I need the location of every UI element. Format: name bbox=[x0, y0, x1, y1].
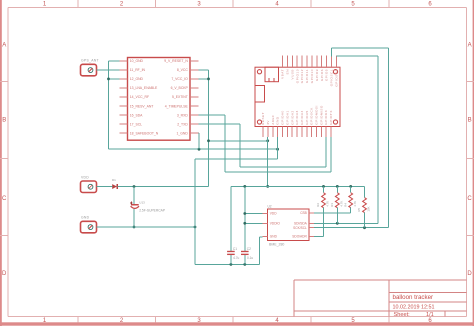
svg-text:4.7K: 4.7K bbox=[353, 201, 357, 207]
svg-text:GPIOA1: GPIOA1 bbox=[285, 110, 289, 125]
svg-text:VDD: VDD bbox=[81, 175, 89, 179]
svg-text:VDDIO: VDDIO bbox=[270, 222, 281, 226]
svg-text:GPIO9: GPIO9 bbox=[315, 69, 319, 81]
svg-text:GPIO10: GPIO10 bbox=[310, 69, 314, 83]
svg-text:SDI/SDA: SDI/SDA bbox=[294, 222, 308, 226]
svg-text:GPIORX: GPIORX bbox=[324, 110, 328, 125]
svg-text:GPIOA4: GPIOA4 bbox=[300, 110, 304, 125]
svg-text:GPIOMOSI: GPIOMOSI bbox=[315, 105, 319, 125]
svg-text:VBAT: VBAT bbox=[281, 69, 285, 79]
svg-text:U2: U2 bbox=[268, 204, 272, 208]
svg-text:GPIOSCL: GPIOSCL bbox=[330, 69, 334, 86]
svg-text:18_SAFEBOOT_N: 18_SAFEBOOT_N bbox=[130, 131, 159, 135]
svg-text:9_V_RESET_N: 9_V_RESET_N bbox=[164, 59, 188, 63]
svg-text:GPIO13: GPIO13 bbox=[295, 69, 299, 83]
svg-text:17_SCL: 17_SCL bbox=[130, 122, 142, 126]
svg-text:GND: GND bbox=[270, 235, 278, 239]
svg-text:GND: GND bbox=[81, 216, 90, 220]
svg-text:R2: R2 bbox=[316, 203, 320, 207]
svg-text:GPIOA2: GPIOA2 bbox=[290, 110, 294, 125]
svg-text:4.7u: 4.7u bbox=[233, 256, 239, 260]
svg-text:GPIOMISO: GPIOMISO bbox=[319, 105, 323, 125]
svg-text:3_RXD: 3_RXD bbox=[177, 113, 188, 117]
svg-text:5_EXTINT: 5_EXTINT bbox=[172, 95, 188, 99]
svg-text:CSB: CSB bbox=[300, 211, 307, 215]
svg-text:GPIOSCK: GPIOSCK bbox=[310, 107, 314, 125]
svg-text:12_GND: 12_GND bbox=[130, 77, 144, 81]
svg-text:A: A bbox=[468, 43, 472, 49]
svg-text:D: D bbox=[467, 271, 472, 277]
svg-text:7_VCC_IO: 7_VCC_IO bbox=[171, 77, 188, 81]
svg-text:GPIO6: GPIO6 bbox=[320, 69, 324, 81]
svg-text:SCK/SCL: SCK/SCL bbox=[293, 226, 307, 230]
svg-text:GPIOTX: GPIOTX bbox=[329, 110, 333, 125]
svg-text:2_TXD: 2_TXD bbox=[177, 122, 188, 126]
svg-text:A: A bbox=[2, 43, 6, 49]
svg-text:0.1u: 0.1u bbox=[247, 256, 253, 260]
svg-text:B: B bbox=[2, 118, 6, 124]
svg-text:VUSB: VUSB bbox=[290, 69, 294, 79]
svg-text:Sheet:: Sheet: bbox=[394, 312, 411, 318]
svg-text:GPIO12: GPIO12 bbox=[300, 69, 304, 83]
svg-text:10.02.2019 12:51: 10.02.2019 12:51 bbox=[393, 305, 435, 311]
svg-text:GPIO5: GPIO5 bbox=[325, 69, 329, 81]
svg-text:GPIOA0: GPIOA0 bbox=[281, 110, 285, 125]
svg-text:R4: R4 bbox=[343, 203, 347, 207]
svg-text:EN: EN bbox=[286, 69, 290, 74]
svg-text:GPIOSDA: GPIOSDA bbox=[335, 69, 339, 87]
svg-text:2.5F-SUPERCAP: 2.5F-SUPERCAP bbox=[139, 209, 166, 213]
svg-text:SDO/ADR: SDO/ADR bbox=[292, 235, 307, 239]
svg-text:AREF: AREF bbox=[271, 115, 275, 125]
svg-text:GND: GND bbox=[276, 116, 280, 125]
svg-text:GPIO11: GPIO11 bbox=[305, 69, 309, 83]
svg-text:U13: U13 bbox=[139, 200, 145, 204]
svg-text:3V: 3V bbox=[266, 120, 270, 125]
svg-text:BME_280: BME_280 bbox=[269, 242, 284, 246]
svg-text:C1: C1 bbox=[233, 247, 237, 251]
svg-text:8_VCC: 8_VCC bbox=[177, 68, 188, 72]
svg-text:C: C bbox=[467, 196, 472, 202]
svg-text:D1: D1 bbox=[112, 178, 116, 182]
svg-text:R3: R3 bbox=[330, 203, 334, 207]
svg-text:10K: 10K bbox=[367, 206, 371, 211]
svg-text:D: D bbox=[2, 271, 7, 277]
svg-text:16_SDA: 16_SDA bbox=[130, 113, 143, 117]
svg-text:C2: C2 bbox=[247, 247, 251, 251]
svg-text:R5: R5 bbox=[357, 208, 361, 212]
svg-text:14_VCC_RF: 14_VCC_RF bbox=[130, 95, 149, 99]
svg-text:10_GND: 10_GND bbox=[130, 59, 144, 63]
svg-text:C: C bbox=[2, 196, 7, 202]
svg-text:4_TIMEPULSE: 4_TIMEPULSE bbox=[165, 104, 189, 108]
svg-text:15_RESV_ANT: 15_RESV_ANT bbox=[130, 104, 154, 108]
svg-text:RESET: RESET bbox=[261, 112, 265, 125]
svg-text:GPS_ANT: GPS_ANT bbox=[81, 59, 99, 63]
svg-text:11_RF_IN: 11_RF_IN bbox=[130, 68, 146, 72]
svg-text:6_V_BCKP: 6_V_BCKP bbox=[171, 86, 189, 90]
svg-text:GPIOA5: GPIOA5 bbox=[305, 110, 309, 125]
svg-text:VDD: VDD bbox=[270, 212, 277, 216]
svg-text:1_GND: 1_GND bbox=[176, 131, 188, 135]
svg-text:1/1: 1/1 bbox=[426, 312, 434, 318]
svg-text:GPIOA3: GPIOA3 bbox=[295, 110, 299, 125]
svg-text:B: B bbox=[468, 118, 472, 124]
svg-text:13_LNA_ENABLE: 13_LNA_ENABLE bbox=[130, 86, 158, 90]
svg-text:balloon tracker: balloon tracker bbox=[393, 294, 434, 301]
